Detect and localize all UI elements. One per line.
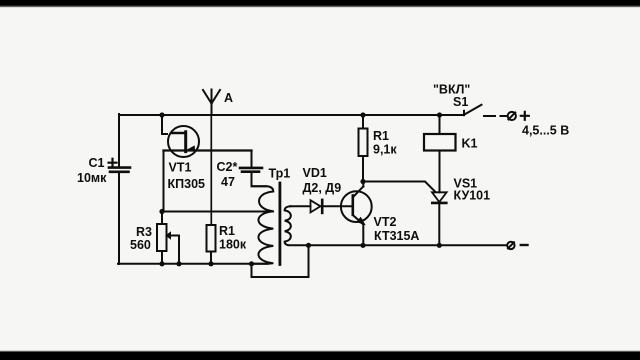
wire R3 top lead [161, 212, 163, 225]
wire left rail lower [118, 173, 120, 265]
svg-text:4,5...5 В: 4,5...5 В [522, 124, 569, 138]
node K1 rail junction [437, 112, 442, 117]
wire drain to C2 [251, 151, 253, 168]
svg-text:КП305: КП305 [168, 177, 206, 191]
terminal minus [507, 242, 527, 249]
wire VT2 collector [362, 182, 364, 187]
svg-text:КТ315А: КТ315А [374, 229, 419, 243]
svg-text:VT2: VT2 [374, 215, 397, 229]
svg-text:10мк: 10мк [77, 171, 107, 185]
svg-text:R3: R3 [136, 225, 152, 239]
svg-text:C1: C1 [89, 156, 105, 170]
svg-text:Тр1: Тр1 [269, 167, 291, 181]
wire VT2 emitter [362, 224, 364, 245]
antenna A [203, 90, 220, 116]
wire VT1 gate [162, 115, 167, 134]
svg-text:180к: 180к [219, 238, 247, 252]
wire secondary to diode [290, 205, 311, 207]
wire left rail upper [118, 114, 120, 167]
resistor R1 180k [207, 225, 216, 264]
wire bottom rail [118, 263, 268, 265]
transistor VT1 [168, 126, 199, 157]
svg-text:S1: S1 [453, 95, 468, 109]
svg-text:A: A [224, 91, 233, 105]
capacitor C1 [109, 159, 131, 172]
wire secondary bottom detour [252, 245, 309, 277]
wire source to transformer tap [162, 211, 273, 213]
transistor VT2 [341, 186, 372, 224]
svg-text:560: 560 [130, 238, 151, 252]
svg-text:VT1: VT1 [169, 161, 192, 175]
relay K1 [424, 134, 456, 192]
svg-text:R1: R1 [373, 129, 389, 143]
svg-text:Д2, Д9: Д2, Д9 [303, 181, 342, 195]
transformer Tr1 primary winding [252, 186, 274, 263]
thyristor VS1 [432, 192, 447, 245]
svg-text:КУ101: КУ101 [454, 189, 491, 203]
wire source down [163, 151, 165, 212]
svg-text:47: 47 [221, 175, 235, 189]
diode VD1 [311, 200, 323, 213]
node R3 wiper bottom junction [176, 261, 181, 266]
node VS1 cathode junction [437, 243, 442, 248]
node gate-rail junction [159, 112, 164, 117]
wire collector to VS1 anode [363, 182, 436, 193]
node secondary bottom junction [306, 243, 311, 248]
transformer Tr1 secondary winding [285, 206, 309, 245]
terminal plus [508, 112, 529, 120]
capacitor C2 [240, 168, 262, 172]
switch S1 [464, 105, 507, 116]
resistor R1 9.1k [359, 129, 368, 182]
wire diode to VT2 base [322, 205, 352, 207]
transformer Tr1 core [278, 183, 281, 265]
wire antenna to R1 [210, 115, 212, 225]
node R1 180k bottom junction [208, 261, 213, 266]
node R1 9.1k rail junction [360, 112, 365, 117]
node R3 bottom junction [159, 261, 164, 266]
wire emitter rail [309, 244, 507, 246]
junction dots [159, 112, 442, 266]
svg-text:9,1к: 9,1к [373, 143, 397, 157]
wire K1 top lead [439, 115, 441, 134]
wire top rail [119, 114, 464, 116]
svg-text:VD1: VD1 [303, 166, 327, 180]
svg-text:K1: K1 [462, 137, 478, 151]
wire R1 9.1k top lead [362, 115, 364, 129]
node emitter junction [360, 243, 365, 248]
node collector junction [360, 179, 365, 184]
wire VT1 source-drain chord [164, 149, 252, 151]
potentiometer R3 [157, 224, 179, 264]
node primary bottom junction [249, 261, 254, 266]
svg-text:R1: R1 [219, 224, 235, 238]
wire C2 to primary top [252, 173, 267, 187]
node source junction [159, 209, 164, 214]
svg-text:C2*: C2* [217, 160, 238, 174]
